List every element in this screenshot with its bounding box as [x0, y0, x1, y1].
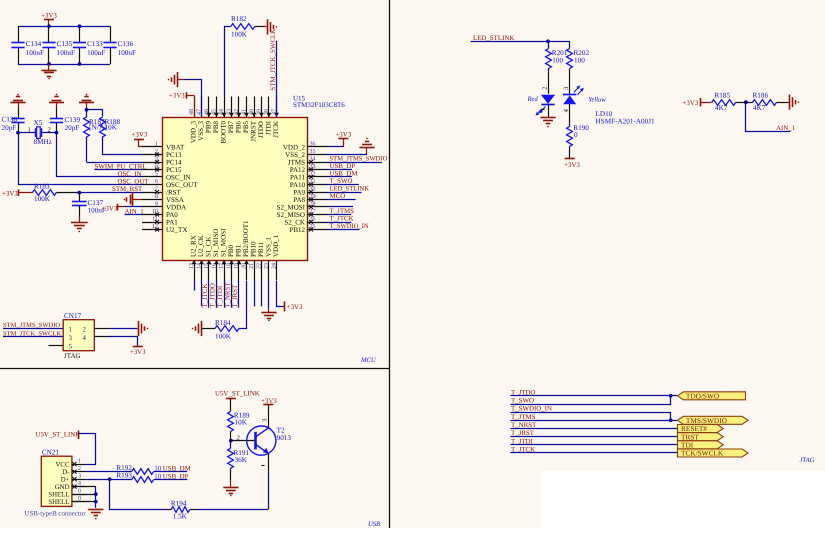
resistor R194 1.5K	[166, 509, 171, 511]
svg-text:4K7: 4K7	[715, 104, 728, 112]
svg-text:STM_JTMS_SWDIO: STM_JTMS_SWDIO	[330, 155, 388, 162]
wire top rail	[18, 26, 110, 28]
svg-text:100: 100	[574, 57, 585, 65]
ground (VSS_1)	[268, 309, 270, 313]
svg-text:TCK/SWCLK: TCK/SWCLK	[681, 449, 724, 458]
wire pin25 T_SWDIO_IN	[327, 229, 360, 231]
CN21 pin GND	[72, 486, 87, 488]
svg-text:Yellow: Yellow	[588, 97, 606, 104]
wire R187/R188 top tie	[87, 110, 103, 117]
resistor R183 100K	[32, 190, 56, 196]
port TRST	[678, 433, 724, 441]
svg-text:USB-typeB connector: USB-typeB connector	[25, 510, 87, 517]
svg-text:36K: 36K	[235, 456, 248, 464]
svg-text:2: 2	[48, 126, 51, 133]
svg-text:R183: R183	[34, 182, 50, 190]
svg-text:1: 1	[69, 325, 73, 333]
LED red (LD10 pin2)	[541, 95, 555, 104]
wire T_JTDO	[510, 395, 677, 397]
svg-text:0: 0	[574, 131, 578, 139]
svg-text:T_JTDO: T_JTDO	[210, 283, 217, 308]
svg-text:X5: X5	[34, 119, 43, 127]
svg-text:MCO: MCO	[330, 193, 346, 200]
svg-text:USB_DM: USB_DM	[330, 170, 358, 177]
svg-text:3: 3	[78, 474, 81, 480]
CN17 pin4 to +3V3	[94, 336, 108, 338]
connector CN21 USB-typeB	[41, 456, 72, 506]
capacitor C134 100nF	[18, 26, 20, 43]
svg-text:2: 2	[78, 466, 81, 472]
svg-text:100nF: 100nF	[118, 49, 136, 57]
svg-text:T_JTMS: T_JTMS	[511, 414, 536, 421]
svg-text:10: 10	[154, 473, 161, 480]
resistor R185 4K7	[712, 100, 736, 106]
svg-text:1: 1	[155, 142, 158, 148]
resistor R182 100K (BOOT0)	[225, 27, 231, 97]
svg-text:24: 24	[271, 263, 277, 269]
wire R194 to T2 emitter	[196, 509, 268, 511]
wire pin32 USB_DM	[327, 176, 352, 178]
svg-text:USB: USB	[368, 521, 380, 528]
svg-text:5: 5	[69, 342, 73, 350]
svg-text:STM_JTCK_SWCLK: STM_JTCK_SWCLK	[270, 29, 277, 91]
svg-text:C135: C135	[57, 40, 73, 48]
svg-text:R185: R185	[715, 92, 731, 100]
wire D+ to R193	[86, 479, 131, 481]
svg-text:36: 36	[310, 142, 316, 148]
svg-text:R193: R193	[116, 472, 132, 480]
wire OSC_IN from C139	[57, 133, 143, 177]
wire T_JTDI	[510, 444, 677, 446]
wire T_JRST	[510, 436, 677, 438]
CN21 pin SHELL	[72, 494, 87, 496]
CN17 pin2 to ground	[94, 328, 108, 330]
ground (R191)	[230, 480, 232, 487]
svg-text:0: 0	[78, 489, 81, 495]
svg-text:VDD_1: VDD_1	[272, 234, 280, 257]
wire AIN_1	[125, 214, 144, 216]
svg-text:23: 23	[264, 263, 270, 269]
svg-text:C133: C133	[87, 40, 103, 48]
resistor R186 4K7	[746, 102, 753, 104]
svg-text:2: 2	[83, 325, 87, 333]
port RESET#	[678, 425, 724, 433]
capacitor C135 100nF	[48, 26, 50, 43]
svg-text:C138: C138	[2, 115, 18, 123]
svg-text:T_JTDI: T_JTDI	[217, 285, 224, 308]
svg-text:T_SWDIO_IN: T_SWDIO_IN	[330, 223, 369, 230]
resistor R188 10K	[100, 117, 106, 137]
wire collector to +3V3	[268, 405, 270, 428]
ground (VSS_2 pin35)	[359, 147, 374, 149]
svg-text:T_JRST: T_JRST	[232, 284, 239, 308]
connector CN17 JTAG	[63, 320, 94, 351]
wire U2_RX pin13	[194, 280, 196, 291]
ground above R187/R188	[79, 102, 94, 104]
wire pin15 T_JTCK	[208, 280, 210, 308]
wire emitter down	[268, 454, 270, 472]
wire T_SWO	[511, 396, 671, 405]
svg-text:4K7: 4K7	[753, 104, 766, 112]
svg-text:LED_STLINK: LED_STLINK	[330, 185, 370, 192]
svg-text:1.5K: 1.5K	[173, 513, 188, 521]
power +3V3 (VDD_1)	[284, 301, 286, 311]
svg-text:VCC: VCC	[56, 462, 70, 469]
svg-text:+3V3: +3V3	[102, 205, 118, 212]
CN21 pin VCC	[72, 464, 87, 466]
svg-text:USB_DM: USB_DM	[163, 466, 191, 473]
svg-text:TDO/SWO: TDO/SWO	[686, 391, 719, 400]
svg-text:PB12: PB12	[289, 226, 305, 234]
power +3V3 (T2 collector)	[263, 404, 273, 406]
wire PB11 pin22	[261, 280, 263, 306]
wire STM_JTCK_SWCLK to CN17 pin3	[3, 336, 63, 338]
port TMS/SWDIO	[677, 416, 748, 424]
resistor R189 10K	[228, 412, 234, 432]
port TDO/SWO	[677, 392, 745, 400]
capacitor C137 100nF	[79, 193, 81, 202]
svg-text:+3V3: +3V3	[564, 162, 580, 169]
wire pin27 T_JTMS	[327, 214, 351, 216]
wire D- to R192	[86, 471, 131, 473]
svg-text:100nF: 100nF	[57, 49, 75, 57]
transistor T2 9013	[247, 426, 276, 455]
svg-text:T_JTMS: T_JTMS	[330, 208, 355, 215]
svg-text:35: 35	[310, 149, 316, 155]
resistor R191 36K	[230, 441, 232, 449]
wire SWIM_PU_CTRL	[95, 169, 144, 171]
svg-text:AIN_1: AIN_1	[776, 125, 796, 132]
wire bottom rail	[18, 64, 110, 66]
ground above C139	[49, 102, 64, 104]
svg-text:HSMF-A201-A00J1: HSMF-A201-A00J1	[596, 118, 656, 126]
svg-text:3: 3	[563, 87, 570, 90]
crystal X5 8MHz	[18, 132, 35, 134]
wire T_NRST	[510, 428, 677, 430]
svg-text:20pF: 20pF	[65, 124, 80, 132]
svg-text:T_SWDIO_IN: T_SWDIO_IN	[511, 406, 552, 413]
resistor R202 100	[569, 42, 571, 49]
U15 right pins 36-25	[307, 146, 327, 148]
power +3V3 (CN17 pin4)	[133, 346, 143, 348]
wire STM_JTMS_SWDIO to CN17 pin1	[3, 328, 63, 330]
ground (R184)	[201, 328, 202, 330]
U15 left pins 1-12	[142, 146, 162, 148]
svg-text:+3V3: +3V3	[335, 132, 351, 139]
svg-text:R186: R186	[753, 92, 769, 100]
svg-text:10K: 10K	[235, 419, 248, 427]
svg-text:1: 1	[28, 126, 31, 133]
power +3V3 (R190)	[565, 158, 575, 160]
ground (C137)	[79, 217, 81, 223]
svg-text:6: 6	[155, 179, 158, 185]
wire AIN_1	[746, 103, 791, 132]
svg-text:T_SWO: T_SWO	[511, 398, 534, 405]
wire D+ junction down to R194	[110, 480, 167, 510]
svg-text:R184: R184	[215, 319, 231, 327]
ground (VSS_3 pin47)	[177, 72, 179, 87]
capacitor C139 20pF	[56, 109, 58, 119]
svg-text:USB_DP: USB_DP	[163, 473, 189, 480]
svg-text:T_SWO: T_SWO	[330, 178, 353, 185]
svg-text:C134: C134	[26, 40, 42, 48]
port TCK/SWCLK	[678, 449, 749, 457]
wire T_SWDIO_IN	[511, 413, 671, 421]
svg-text:U2_TX: U2_TX	[166, 226, 187, 234]
svg-text:JTCK: JTCK	[272, 121, 280, 138]
svg-text:LED_STLINK: LED_STLINK	[473, 35, 514, 42]
svg-text:R182: R182	[231, 15, 247, 23]
wire T_JTMS	[510, 420, 677, 422]
port TDI	[678, 441, 724, 449]
svg-text:1: 1	[78, 459, 81, 465]
svg-text:U5V_ST_LINK: U5V_ST_LINK	[215, 391, 260, 398]
svg-text:+3V3: +3V3	[41, 13, 57, 20]
svg-text:CN17: CN17	[64, 312, 82, 320]
ground (R186)	[788, 102, 790, 104]
svg-text:8MHz: 8MHz	[34, 138, 52, 146]
svg-text:OSC_IN: OSC_IN	[118, 171, 142, 178]
ground (red LED)	[548, 104, 550, 117]
svg-text:STM_RST: STM_RST	[112, 186, 143, 193]
power bar U5V_ST_LINK (CN21)	[78, 431, 80, 439]
wire pin16 T_JTDO	[216, 280, 218, 308]
CN21 pin SHELL	[72, 501, 87, 503]
CN17 pin5 stub	[49, 345, 64, 347]
capacitor C136 100nF	[110, 26, 112, 43]
svg-text:9: 9	[155, 202, 158, 208]
CN21 pin D-	[72, 471, 87, 473]
svg-text:SHELL: SHELL	[48, 499, 69, 506]
svg-text:100K: 100K	[215, 332, 232, 340]
svg-text:T_NRST: T_NRST	[225, 282, 232, 308]
svg-text:+3V3: +3V3	[132, 132, 148, 139]
svg-text:CN21: CN21	[42, 449, 60, 457]
resistor R201 100	[548, 41, 550, 48]
svg-text:JTAG: JTAG	[64, 352, 81, 360]
wire U5V to CN21 VCC	[79, 434, 96, 465]
svg-text:+3V3: +3V3	[261, 398, 277, 405]
resistor R193 10	[132, 477, 154, 483]
svg-text:8: 8	[155, 194, 158, 200]
wire pin28 S2_MOSI	[327, 206, 353, 208]
svg-text:+3V3: +3V3	[130, 349, 146, 356]
svg-text:21: 21	[249, 263, 255, 269]
resistor R192 10	[132, 469, 154, 475]
wire base T2	[231, 440, 255, 442]
svg-text:2: 2	[541, 87, 548, 90]
ground (VSSA pin8)	[132, 192, 134, 207]
LED yellow (LD10 pins 3-4)	[563, 94, 576, 96]
svg-text:100nF: 100nF	[26, 49, 44, 57]
svg-text:20pF: 20pF	[2, 124, 17, 132]
resistor R184 100K	[215, 326, 239, 332]
svg-text:100K: 100K	[231, 31, 248, 39]
wire VDD_1 pin24 to +3V3	[277, 281, 285, 307]
wire VSS_1 pin23 to ground	[268, 280, 270, 309]
svg-text:R194: R194	[171, 499, 187, 507]
ground (CN17 pin2)	[138, 321, 140, 336]
svg-text:+3V3: +3V3	[287, 304, 303, 311]
wire pin34 STM_JTMS_SWDIO	[327, 162, 382, 164]
wire STM_JTCK_SWCLK (JTCK pin37)	[276, 41, 278, 117]
svg-text:C136: C136	[118, 40, 134, 48]
svg-text:9013: 9013	[277, 434, 292, 442]
capacitor C133 100nF	[79, 26, 81, 43]
ground above C138	[10, 102, 25, 104]
svg-text:U5V_ST_LINK: U5V_ST_LINK	[36, 432, 81, 439]
svg-text:T_JTCK: T_JTCK	[202, 284, 209, 308]
svg-text:SHELL: SHELL	[48, 492, 69, 499]
wire OSC_OUT from C138	[19, 133, 143, 185]
svg-text:100nF: 100nF	[87, 49, 105, 57]
svg-text:GND: GND	[55, 484, 70, 491]
svg-text:T_JTCK: T_JTCK	[330, 215, 354, 222]
svg-text:STM32F103C8T6: STM32F103C8T6	[293, 101, 345, 109]
CN21 GND/SHELL tie	[72, 486, 96, 488]
wire T_JTCK	[510, 452, 677, 454]
ground (CN21)	[88, 509, 103, 511]
svg-text:D+: D+	[61, 477, 70, 484]
CN21 pin D+	[72, 479, 87, 481]
svg-text:3: 3	[69, 334, 73, 342]
U15 bottom pins 13-24	[194, 260, 196, 280]
wire PB2/BOOT1 pin20 to R184	[239, 281, 247, 329]
svg-text:3: 3	[261, 418, 268, 421]
svg-text:MCU: MCU	[360, 357, 377, 364]
wire pin31 T_SWO	[327, 184, 359, 186]
svg-text:JTAG: JTAG	[800, 457, 815, 464]
op chip U1 body: U15 STM32F103C8T6	[163, 118, 308, 261]
ground (R182)	[264, 26, 268, 28]
svg-text:5: 5	[155, 172, 158, 178]
wire pin30 LED_STLINK	[327, 192, 362, 194]
capacitor C138 20pF	[18, 109, 20, 119]
wire U2_CK pin14	[201, 280, 203, 306]
wire PB10 pin21	[254, 280, 256, 306]
resistor R187 [N/A]	[84, 117, 90, 137]
svg-text:C139: C139	[65, 116, 81, 124]
wire STM_RST	[77, 192, 143, 194]
wire pin26 T_JTCK	[327, 222, 351, 224]
wire LED_STLINK	[471, 41, 570, 43]
svg-text:100: 100	[552, 57, 563, 65]
svg-text:22: 22	[256, 263, 262, 269]
wire pin19 T_JRST	[238, 280, 240, 308]
wire pin29 MCO	[327, 199, 356, 201]
svg-text:D-: D-	[62, 469, 70, 476]
wire pin17 T_JTDI	[224, 280, 226, 308]
wire pin18 T_NRST	[231, 280, 233, 308]
svg-text:+3V3: +3V3	[169, 93, 185, 100]
U15 top pins 48-37	[194, 97, 196, 118]
svg-text:+3V3: +3V3	[683, 100, 699, 107]
svg-text:10: 10	[154, 466, 161, 473]
section divider lines	[389, 0, 391, 528]
junction dots cap bank	[47, 24, 51, 28]
ground (cap bank)	[48, 64, 50, 70]
svg-text:100K: 100K	[34, 195, 51, 203]
svg-text:+3V3: +3V3	[2, 190, 18, 197]
svg-text:10K: 10K	[105, 124, 118, 132]
svg-text:4: 4	[83, 334, 87, 342]
resistor R190 0	[569, 104, 571, 126]
node: crystal junctions	[16, 131, 20, 135]
svg-text:USB_DP: USB_DP	[330, 163, 356, 170]
wire pin33 USB_DP	[327, 169, 352, 171]
svg-text:Red: Red	[527, 96, 539, 103]
